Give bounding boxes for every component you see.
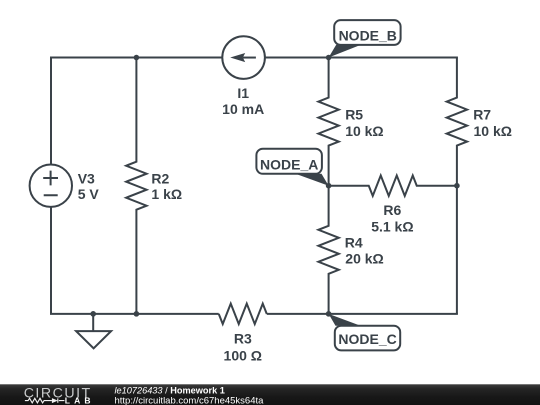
junction node A	[326, 183, 332, 189]
node NODE_A flag	[256, 149, 328, 186]
resistor R4	[318, 186, 338, 314]
svg-text:10 kΩ: 10 kΩ	[474, 123, 512, 139]
junction node R6 right	[454, 183, 460, 189]
svg-text:R3: R3	[234, 331, 252, 347]
svg-text:I1: I1	[237, 85, 249, 101]
svg-text:V3: V3	[78, 171, 95, 187]
svg-text:5.1 kΩ: 5.1 kΩ	[371, 219, 413, 235]
svg-text:R7: R7	[473, 106, 491, 122]
ground	[76, 314, 111, 348]
node NODE_C flag	[329, 314, 401, 351]
resistor R5	[318, 58, 338, 186]
svg-text:http://circuitlab.com/c67he45k: http://circuitlab.com/c67he45ks64ta	[115, 395, 265, 405]
node NODE_B flag	[329, 20, 401, 57]
svg-text:NODE_A: NODE_A	[260, 156, 318, 172]
footer bar	[0, 384, 540, 405]
svg-text:R6: R6	[383, 202, 401, 218]
wire bottom right	[267, 313, 458, 315]
junction node bottom R2	[134, 311, 140, 317]
resistor R3	[219, 304, 267, 324]
wire right lower	[456, 186, 458, 314]
svg-text:NODE_C: NODE_C	[338, 331, 396, 347]
svg-text:le10726433 / Homework 1: le10726433 / Homework 1	[115, 386, 225, 396]
resistor R7	[447, 58, 467, 186]
wire left	[50, 57, 52, 314]
svg-text:1 kΩ: 1 kΩ	[151, 186, 182, 202]
svg-text:10 kΩ: 10 kΩ	[345, 123, 383, 139]
voltage source V3	[30, 165, 72, 207]
svg-text:R2: R2	[151, 170, 169, 186]
resistor R2	[126, 58, 146, 314]
wire top	[51, 57, 458, 59]
current source I1	[222, 36, 265, 79]
svg-text:LAB: LAB	[65, 395, 95, 405]
svg-text:10 mA: 10 mA	[222, 101, 264, 117]
junction node C	[326, 311, 332, 317]
svg-text:5 V: 5 V	[78, 186, 100, 202]
junction node ground	[90, 311, 96, 317]
svg-text:NODE_B: NODE_B	[339, 27, 397, 43]
footer logo circuit glyph	[25, 398, 65, 403]
resistor R6	[329, 176, 457, 196]
junction node B	[326, 55, 332, 61]
wire bottom left	[50, 313, 219, 315]
svg-text:20 kΩ: 20 kΩ	[345, 250, 383, 266]
junction node top R2	[134, 55, 140, 61]
svg-text:R5: R5	[345, 106, 363, 122]
svg-text:R4: R4	[345, 234, 363, 250]
svg-text:100 Ω: 100 Ω	[224, 348, 262, 364]
